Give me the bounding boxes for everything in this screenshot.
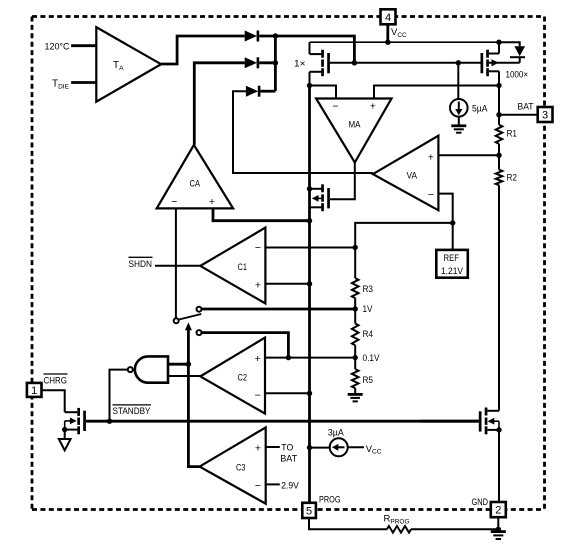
svg-text:3: 3: [542, 110, 548, 122]
junction chain C1 tap: [353, 245, 358, 250]
svg-text:−: −: [171, 196, 177, 208]
wire pin4 to VCC rail: [386, 24, 389, 42]
svg-text:5: 5: [306, 505, 312, 517]
diode body diode of 1000x: [499, 42, 525, 63]
junction diode bus D2: [273, 60, 278, 65]
wire C3 noninverting input: [266, 446, 280, 448]
svg-text:1: 1: [31, 385, 37, 397]
comparator C2: [200, 338, 265, 414]
svg-text:4: 4: [385, 12, 391, 24]
junction diode bus top: [273, 33, 278, 38]
diode D1: [245, 31, 276, 42]
svg-text:PROG: PROG: [319, 494, 341, 505]
svg-text:MA: MA: [349, 119, 362, 130]
svg-text:1.21V: 1.21V: [441, 266, 464, 277]
pin 4 VCC: [381, 9, 396, 24]
ground below 5uA: [451, 126, 466, 133]
wire BAT to pin 3: [499, 114, 538, 116]
wire STANDBY line: [86, 420, 479, 423]
junction VCC at 1000x source: [496, 40, 501, 45]
wire diode cathode bus: [274, 36, 277, 91]
wire diode bus to gate line: [275, 36, 354, 63]
resistor R5: [352, 369, 373, 388]
junction 0.1V tap: [353, 355, 358, 360]
junction 1V tap: [353, 306, 358, 311]
op-amp TA: [96, 27, 161, 102]
junction VA+ tap: [496, 153, 501, 158]
junction PROG bus 3uA: [307, 445, 312, 450]
wire source to ground: [64, 430, 66, 439]
wire C2 noninverting input to 0.1V tap: [265, 357, 355, 359]
pin 1 CHRG wire: [42, 390, 65, 412]
svg-text:VA: VA: [407, 170, 418, 181]
junction GND node: [496, 527, 501, 532]
REF 1.21V box: [436, 250, 468, 278]
pin 1 CHRG: [27, 383, 42, 397]
pin 2 GND: [491, 502, 506, 517]
NAND gate: [128, 356, 168, 382]
wire NAND input 2 from C2 output: [168, 375, 200, 377]
resistor R3: [352, 278, 373, 298]
svg-text:R1: R1: [507, 129, 518, 140]
svg-text:R3: R3: [363, 284, 374, 295]
transistor clamp PMOS at MA output: [310, 184, 330, 211]
svg-text:+: +: [255, 353, 261, 365]
wire VCC rail: [310, 41, 500, 43]
junction output NMOS source: [496, 427, 501, 432]
wire VA output line to diode D3: [233, 91, 373, 173]
svg-text:+: +: [209, 196, 215, 208]
wire CA output up to diode D2: [194, 63, 244, 145]
svg-text:0.1V: 0.1V: [363, 353, 381, 364]
wire TA output to diode D1: [161, 36, 245, 64]
current source 3uA: [310, 438, 365, 456]
wire CA inverting input to switch pole: [175, 208, 177, 318]
wire REF node to resistor chain top: [355, 223, 453, 278]
wire NMOS source to pin2: [498, 430, 500, 502]
svg-text:3µA: 3µA: [328, 427, 345, 438]
junction PROG bus CA input: [307, 218, 312, 223]
junction gate line tap: [352, 60, 357, 65]
switch SPDT pole circle: [174, 318, 179, 323]
svg-text:5µA: 5µA: [472, 103, 488, 114]
svg-text:CA: CA: [190, 178, 201, 189]
svg-text:VCC: VCC: [366, 444, 382, 456]
wire switch top throw to 1V tap: [202, 308, 356, 311]
dashed IC boundary bottom: [32, 508, 545, 511]
wire VA inverting input to REF: [438, 194, 452, 250]
junction 1000x drain BAT node: [496, 83, 501, 88]
wire C1 inverting input to 1V tap chain: [265, 247, 355, 249]
svg-text:R5: R5: [363, 375, 374, 386]
transistor 1x mirror MOSFET: [310, 42, 330, 85]
wire NAND input 1: [168, 363, 188, 366]
wire R3 to R4: [354, 298, 356, 323]
svg-text:REF: REF: [444, 253, 460, 264]
wire CA noninverting input to PROG bus: [213, 208, 310, 220]
current source 5uA: [450, 63, 468, 125]
wire C1 noninverting input to PROG bus: [265, 283, 309, 285]
svg-text:C1: C1: [238, 262, 248, 273]
wire C3 inverting input: [266, 483, 280, 485]
svg-text:C3: C3: [236, 462, 246, 473]
svg-text:BAT: BAT: [280, 453, 297, 464]
svg-text:C2: C2: [238, 372, 248, 383]
wire gate line: [330, 62, 481, 64]
resistor RPROG: [384, 514, 412, 533]
transistor output NMOS at GND: [421, 408, 499, 435]
node STANDBY label: [113, 405, 152, 417]
wire RPROG to GND node: [411, 528, 498, 530]
junction gate line 5uA: [456, 60, 461, 65]
svg-text:TO: TO: [281, 442, 293, 453]
pin 5 PROG: [302, 503, 316, 518]
diode D2: [245, 57, 276, 68]
node SHDN label: [129, 257, 153, 270]
junction C2 input switch branch: [286, 355, 291, 360]
svg-text:RPROG: RPROG: [384, 514, 410, 526]
arrow C3 control of switch: [185, 322, 192, 330]
svg-text:+: +: [428, 152, 434, 164]
svg-text:SHDN: SHDN: [129, 259, 153, 270]
switch top throw circle: [197, 307, 202, 312]
resistor R1: [496, 125, 517, 144]
wire NAND output to STANDBY line: [110, 370, 128, 422]
wire PROG bus: [308, 86, 311, 503]
ground below R5: [348, 394, 363, 401]
svg-text:1V: 1V: [363, 304, 374, 315]
switch lever: [179, 314, 202, 320]
transistor 1000x power MOSFET: [481, 42, 520, 85]
op-amp MA: [316, 99, 391, 163]
wire switch bottom throw to C2 input: [202, 333, 289, 358]
wire C2 inverting input to PROG bus: [265, 392, 310, 394]
ground below pin2: [491, 532, 506, 539]
junction BAT node: [496, 112, 501, 117]
pin 3 BAT: [538, 107, 553, 122]
junction CHRG NMOS source: [62, 427, 67, 432]
op-amp VA: [373, 136, 439, 211]
svg-text:−: −: [255, 389, 261, 401]
svg-text:+: +: [255, 442, 261, 454]
junction PROG bus clamp PMOS: [307, 186, 312, 191]
comparator C3: [200, 427, 266, 503]
svg-text:STANDBY: STANDBY: [113, 406, 152, 417]
dashed IC boundary right: [543, 17, 546, 510]
node CHRG label: [44, 374, 68, 386]
switch bottom throw circle: [197, 330, 202, 335]
svg-text:−: −: [255, 242, 261, 254]
wire R2 down to output NMOS drain: [498, 185, 500, 411]
svg-text:CHRG: CHRG: [44, 375, 68, 386]
svg-text:2: 2: [495, 505, 501, 517]
svg-text:+: +: [370, 100, 376, 112]
svg-text:2.9V: 2.9V: [281, 481, 299, 492]
wire MA inverting input: [310, 86, 337, 99]
wire MA noninverting input to 1000x drain: [374, 86, 499, 99]
svg-text:TDIE: TDIE: [52, 79, 70, 91]
svg-text:VCC: VCC: [391, 27, 407, 39]
wire BAT node vertical: [498, 86, 500, 125]
junction REF node: [450, 220, 455, 225]
wire SHDN input: [155, 265, 200, 267]
svg-text:−: −: [332, 100, 338, 112]
diode D3: [246, 86, 276, 97]
svg-text:R4: R4: [363, 329, 374, 340]
wire R5 to ground: [354, 388, 356, 394]
junction STANDBY NAND output: [107, 419, 112, 424]
svg-text:−: −: [255, 480, 261, 492]
junction PROG bus MA input: [307, 83, 312, 88]
junction NAND input C3 line: [186, 362, 191, 367]
comparator C1: [200, 228, 265, 304]
svg-text:1×: 1×: [294, 59, 306, 70]
svg-text:BAT: BAT: [518, 102, 534, 113]
junction PROG bus C2 input: [307, 391, 312, 396]
svg-text:120°C: 120°C: [45, 42, 70, 53]
junction VCC rail pin4: [385, 40, 390, 45]
ground open triangle: [59, 439, 71, 450]
node 120°C input wire: [71, 44, 96, 47]
wire R1 to R2: [498, 144, 500, 170]
dashed IC boundary left: [31, 17, 34, 510]
svg-text:R2: R2: [507, 173, 518, 184]
dashed IC boundary top: [32, 15, 545, 18]
resistor R2: [496, 170, 517, 186]
op-amp CA: [157, 145, 233, 209]
svg-text:+: +: [255, 280, 261, 292]
svg-text:−: −: [428, 189, 434, 201]
wire R4 to R5: [354, 345, 356, 369]
wire pin2 to ground: [497, 517, 499, 531]
node TO BAT label: [280, 442, 297, 464]
node TDIE input wire: [71, 81, 96, 84]
svg-text:1000×: 1000×: [506, 70, 529, 81]
svg-text:GND: GND: [472, 497, 489, 508]
wire C3 output bus: [188, 329, 199, 467]
wire VA+ input: [438, 154, 499, 156]
junction PROG bus C1 input: [307, 281, 312, 286]
wire MA output to clamp PMOS gate: [330, 163, 355, 200]
transistor CHRG open-drain NMOS: [65, 408, 86, 434]
wire pin5 to RPROG: [309, 518, 387, 529]
resistor R4: [352, 324, 373, 346]
